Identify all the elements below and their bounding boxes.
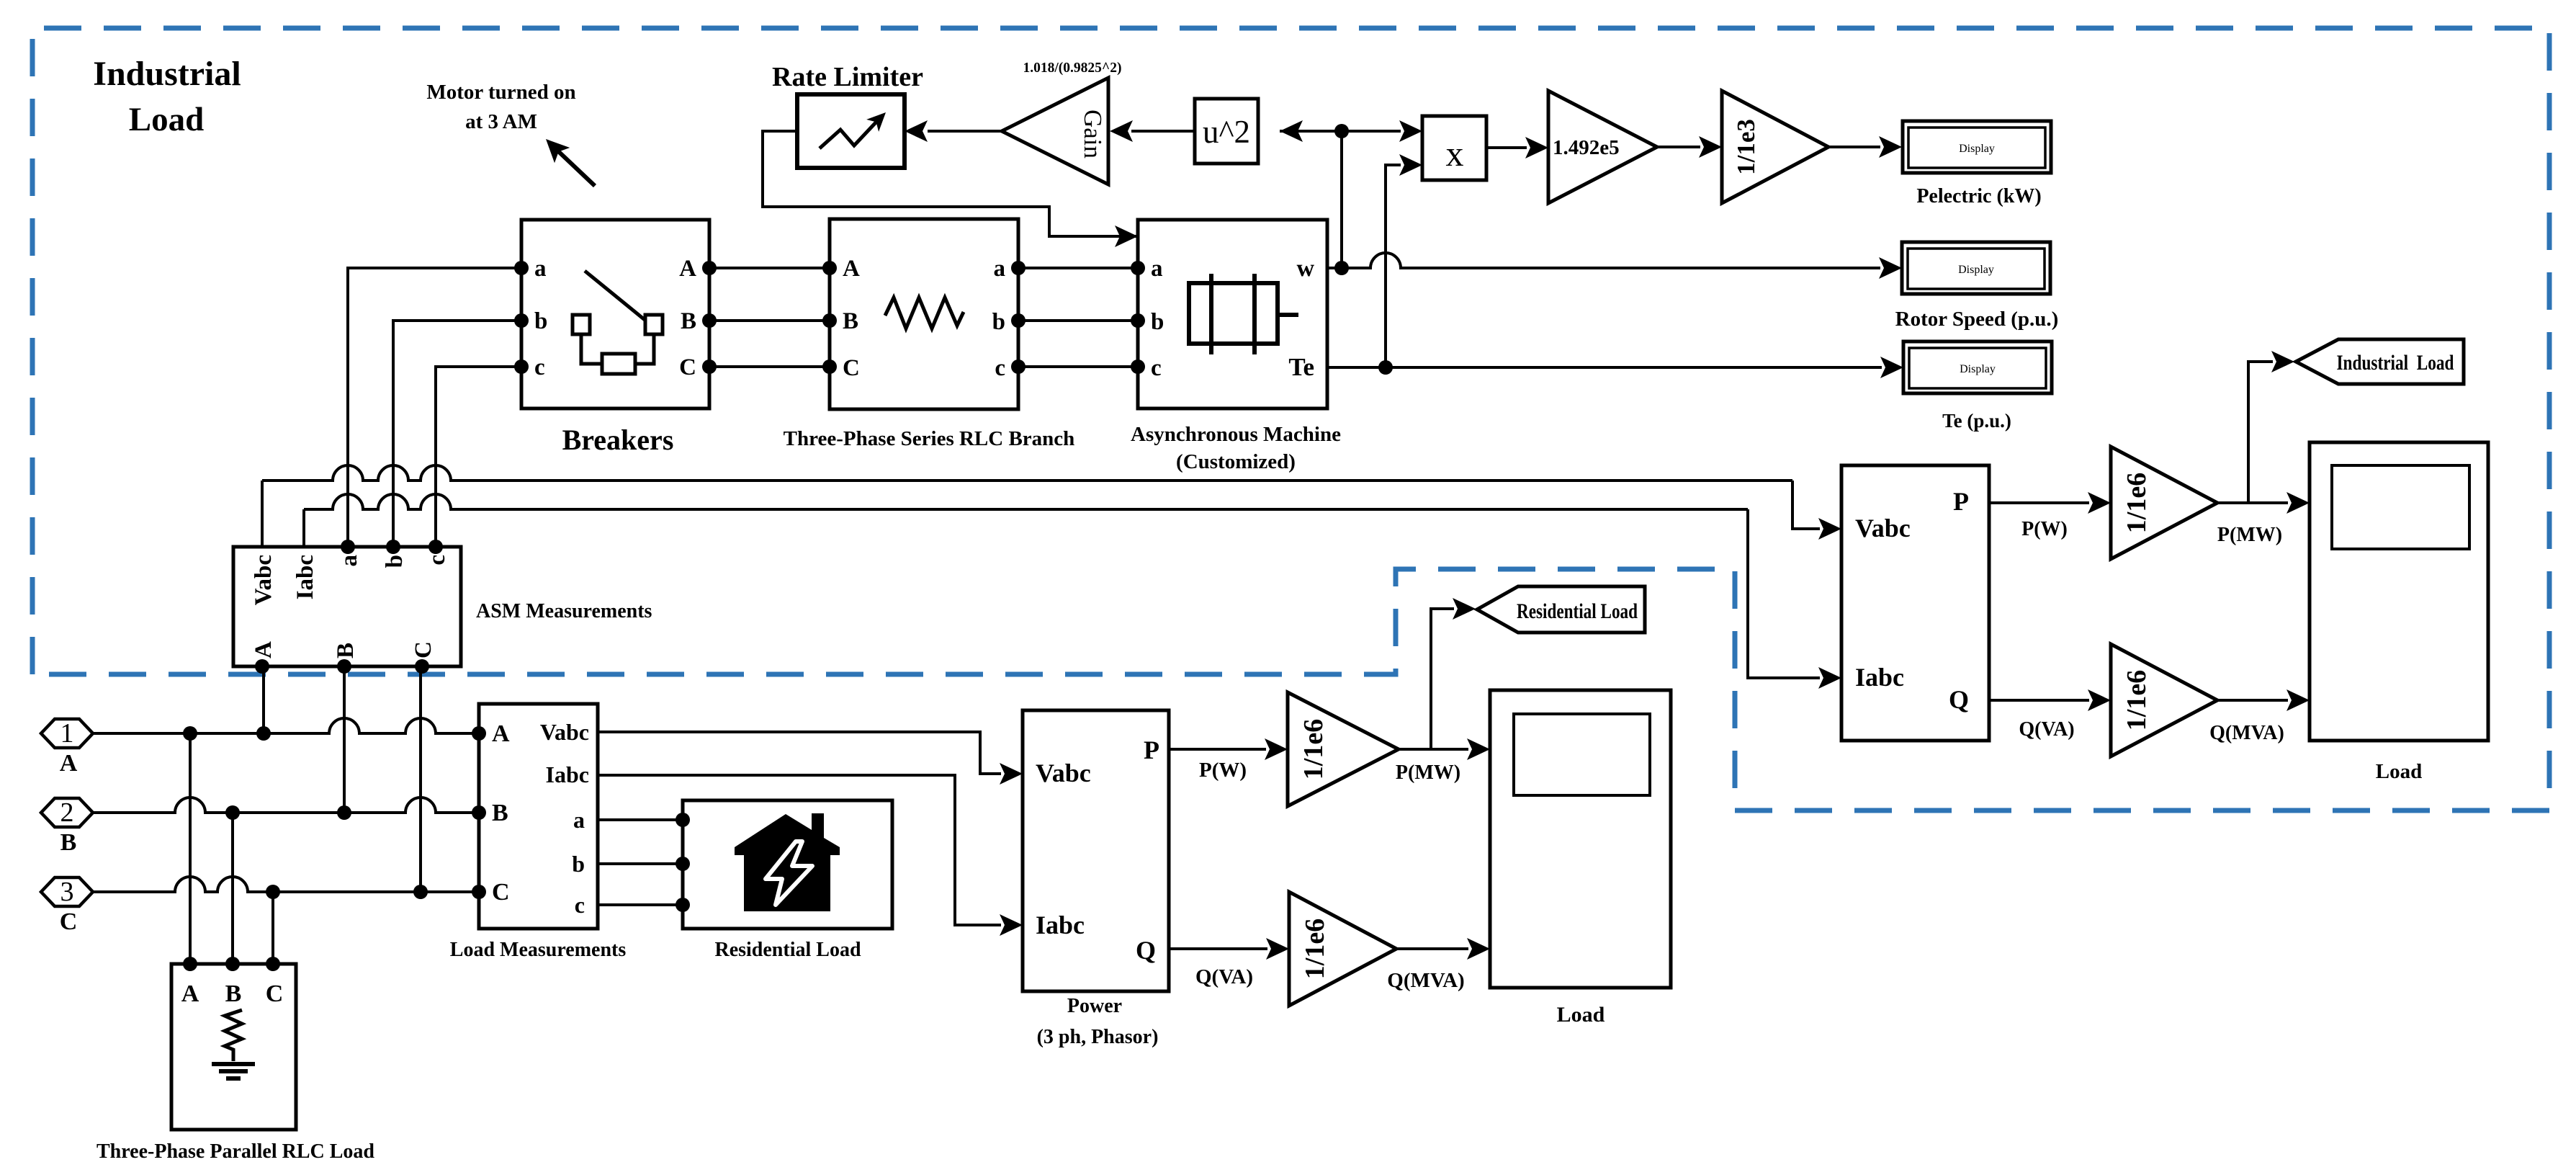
wire: ASM A down to row A xyxy=(262,666,265,733)
svg-text:Three-Phase Series RLC Branch: Three-Phase Series RLC Branch xyxy=(784,427,1075,450)
breakers port dots xyxy=(514,261,529,275)
wire RLC c to machine c xyxy=(1018,365,1138,368)
svg-text:1.492e5: 1.492e5 xyxy=(1553,136,1620,159)
svg-text:B: B xyxy=(333,643,359,658)
svg-text:a: a xyxy=(994,256,1006,282)
svg-text:P(MW): P(MW) xyxy=(1396,761,1460,784)
junction dot row B to RLC load B xyxy=(225,805,240,820)
wire ASM Vabc output long line to P-Q measurement Vabc xyxy=(261,481,264,547)
svg-text:Te: Te xyxy=(1288,353,1314,381)
svg-text:Vabc: Vabc xyxy=(251,555,277,605)
wire ASM a up to breakers a xyxy=(348,268,521,547)
svg-text:b: b xyxy=(382,555,408,568)
block Power (3 ph, Phasor) xyxy=(1023,710,1169,991)
svg-text:b: b xyxy=(572,851,585,877)
rlc load resistor + ground icon xyxy=(225,1010,242,1061)
wire: ASM C down to row C xyxy=(419,666,422,892)
junction dot on w line xyxy=(1334,261,1349,275)
junction dot row C to RLC load C xyxy=(266,885,280,899)
input port 2 (B) xyxy=(41,798,93,827)
wire: X output to gain 1.492e5 xyxy=(1486,146,1527,149)
gain 1/1e6 (P residential) xyxy=(1288,692,1399,806)
svg-text:Display: Display xyxy=(1960,363,1996,375)
svg-text:B: B xyxy=(843,308,858,334)
svg-text:at 3 AM: at 3 AM xyxy=(465,110,537,133)
svg-text:P: P xyxy=(1953,487,1969,516)
junction dot row B from ASM B xyxy=(337,805,351,820)
wire gain to industrial Load scope P input xyxy=(2217,501,2288,504)
wire row C: port 3 to Load Measurements C (hops over RLC A,B drops) xyxy=(93,877,479,892)
wire Power P to gain 1/1e6 xyxy=(1169,748,1266,751)
svg-text:Q(VA): Q(VA) xyxy=(1195,965,1253,988)
wire gain to industrial Load scope Q input xyxy=(2217,699,2288,702)
block Asynchronous Machine (Customized) xyxy=(1138,220,1327,408)
load measurements port dots xyxy=(472,726,486,741)
svg-text:Motor turned on: Motor turned on xyxy=(426,81,575,104)
svg-text:Te (p.u.): Te (p.u.) xyxy=(1942,410,2011,432)
svg-text:c: c xyxy=(575,892,585,918)
svg-text:P(W): P(W) xyxy=(2021,518,2068,540)
junction dot row A to RLC load A xyxy=(183,726,197,741)
svg-text:(Customized): (Customized) xyxy=(1176,450,1296,473)
svg-text:C: C xyxy=(60,908,78,935)
svg-text:Breakers: Breakers xyxy=(562,424,674,456)
wire ASM c up to breakers c xyxy=(436,367,521,547)
svg-text:1.018/(0.9825^2): 1.018/(0.9825^2) xyxy=(1023,61,1122,76)
goto tag Residential Load xyxy=(1477,586,1645,633)
wire LM Vabc to Power Vabc xyxy=(598,732,1001,774)
wire: ASM B down to row B xyxy=(343,666,346,813)
svg-text:B: B xyxy=(225,980,242,1007)
svg-text:a: a xyxy=(1151,256,1163,282)
house silhouette xyxy=(735,813,840,911)
svg-text:C: C xyxy=(679,354,696,380)
wire: vertical from Te line up to X lower input xyxy=(1386,165,1401,367)
svg-text:Q(MVA): Q(MVA) xyxy=(2209,722,2284,744)
svg-text:P: P xyxy=(1144,736,1159,764)
rlc load port dots xyxy=(183,957,197,971)
block Three-Phase Series RLC Branch xyxy=(830,219,1018,409)
svg-text:Industrial: Industrial xyxy=(93,55,241,93)
resistor zigzag icon xyxy=(885,298,964,329)
svg-text:Asynchronous Machine: Asynchronous Machine xyxy=(1131,423,1341,446)
wire RLC a to machine a xyxy=(1018,267,1138,269)
input port 1 (A) xyxy=(41,719,93,748)
svg-text:Load: Load xyxy=(2376,760,2422,783)
display Te (p.u.) xyxy=(1903,341,2052,393)
wire: machine w output to Rotor Speed display (hops over X-input vertical) xyxy=(1327,253,1880,268)
lightning bolt xyxy=(766,841,812,905)
svg-text:b: b xyxy=(534,308,547,334)
svg-text:a: a xyxy=(336,555,362,567)
svg-text:A: A xyxy=(251,641,277,658)
wire gain to residential Load scope P input xyxy=(1399,748,1468,751)
svg-text:a: a xyxy=(573,807,585,833)
wire branch up to Industrial Load goto tag xyxy=(2248,362,2273,503)
svg-text:C: C xyxy=(492,879,510,906)
svg-text:1/1e6: 1/1e6 xyxy=(2122,670,2152,731)
wire: vertical from branch dot down to w output line xyxy=(1340,131,1343,268)
svg-text:Gain: Gain xyxy=(1079,110,1107,158)
svg-text:Display: Display xyxy=(1958,264,1994,276)
svg-text:b: b xyxy=(992,309,1005,335)
svg-text:Iabc: Iabc xyxy=(546,761,589,787)
svg-text:1/1e6: 1/1e6 xyxy=(1298,719,1329,779)
svg-text:u^2: u^2 xyxy=(1203,114,1250,150)
block Three-Phase Parallel RLC Load xyxy=(171,964,296,1130)
svg-text:Rotor Speed (p.u.): Rotor Speed (p.u.) xyxy=(1895,308,2059,331)
svg-text:A: A xyxy=(492,720,510,747)
wire breakers C to RLC C xyxy=(709,365,830,368)
svg-text:Power: Power xyxy=(1067,995,1122,1017)
svg-text:3: 3 xyxy=(60,877,74,907)
svg-text:C: C xyxy=(266,980,284,1007)
gain 1/1e6 (P industrial) xyxy=(2111,447,2217,559)
wire: 1/1e3 to Pelectric display xyxy=(1828,146,1880,148)
wire branch up to Residential Load goto tag xyxy=(1431,609,1454,749)
svg-text:Q(MVA): Q(MVA) xyxy=(1387,969,1464,992)
annotation arrow xyxy=(555,148,595,186)
rlc branch port dots xyxy=(822,261,837,275)
junction dot row C from ASM C xyxy=(413,885,428,899)
wire row A: port 1 to Load Measurements A (hops over ASM B,C drops) xyxy=(93,718,479,733)
input port 3 (C) xyxy=(41,877,93,906)
junction dot row A to ASM A xyxy=(256,726,271,741)
junction dot on Te line xyxy=(1378,360,1393,375)
wire ASM b up to breakers b xyxy=(393,321,521,547)
machine icon xyxy=(1189,283,1278,344)
wire: row B down to RLC load B xyxy=(231,813,234,964)
block ASM Measurements xyxy=(233,547,461,666)
svg-text:C: C xyxy=(410,641,436,658)
svg-text:A: A xyxy=(181,980,199,1007)
wire measurement P to gain 1/1e6 (industrial) xyxy=(1989,501,2089,504)
subsystem boundary: Industrial Load (blue dashed) xyxy=(32,28,2549,810)
svg-text:P(W): P(W) xyxy=(1199,759,1247,782)
gain 1.492e5 xyxy=(1548,91,1657,203)
svg-text:Display: Display xyxy=(1959,143,1995,155)
gain 1/1e6 (Q residential) xyxy=(1289,892,1396,1006)
wire: w signal branch line to u^2 and product X xyxy=(1280,130,1401,133)
display Rotor Speed (p.u.) xyxy=(1902,242,2050,294)
svg-text:Q(VA): Q(VA) xyxy=(2019,718,2074,741)
breaker icon switch xyxy=(585,271,647,322)
wire: machine Te output to Te display xyxy=(1327,366,1882,369)
svg-text:C: C xyxy=(843,355,860,381)
asm measurements port dots xyxy=(341,540,355,554)
svg-text:x: x xyxy=(1446,133,1464,174)
wire breakers B to RLC B xyxy=(709,319,830,322)
svg-text:Vabc: Vabc xyxy=(540,719,589,745)
svg-text:Iabc: Iabc xyxy=(292,555,318,599)
wire LM Iabc to Power Iabc xyxy=(598,775,1001,925)
wire LM b to house xyxy=(598,862,683,865)
svg-text:Load: Load xyxy=(1557,1003,1605,1027)
svg-text:A: A xyxy=(60,750,78,777)
wire measurement Q to gain 1/1e6 (industrial) xyxy=(1989,699,2089,702)
wire: u^2 output to gain input xyxy=(1131,130,1195,133)
svg-text:2: 2 xyxy=(60,798,74,828)
svg-text:A: A xyxy=(679,256,696,282)
svg-text:Q: Q xyxy=(1949,685,1969,714)
gain 1/1e6 (Q industrial) xyxy=(2111,644,2217,756)
block u^2 (math function square) xyxy=(1195,99,1258,164)
wire LM a to house xyxy=(598,818,683,821)
svg-text:1/1e6: 1/1e6 xyxy=(1300,919,1330,979)
machine port dots xyxy=(1131,261,1145,275)
svg-text:c: c xyxy=(424,555,450,566)
svg-text:Q: Q xyxy=(1136,936,1156,965)
svg-text:Iabc: Iabc xyxy=(1855,663,1904,692)
svg-text:c: c xyxy=(534,354,545,380)
svg-text:Rate Limiter: Rate Limiter xyxy=(772,62,923,92)
wire RLC b to machine b xyxy=(1018,319,1138,322)
scope Load (residential) xyxy=(1490,690,1671,988)
svg-text:w: w xyxy=(1296,255,1314,282)
wire: row C down to RLC load C xyxy=(271,892,274,964)
svg-text:1/1e6: 1/1e6 xyxy=(2122,473,2152,533)
svg-text:P(MW): P(MW) xyxy=(2217,524,2282,546)
svg-text:c: c xyxy=(995,355,1005,381)
svg-text:(3 ph, Phasor): (3 ph, Phasor) xyxy=(1037,1026,1159,1048)
wire: gain output to rate limiter input xyxy=(928,130,1002,133)
wire row B: port 2 to Load Measurements B (hops over RLC A drop and ASM C drop) xyxy=(93,798,479,813)
svg-text:ASM Measurements: ASM Measurements xyxy=(476,600,652,622)
svg-text:Load: Load xyxy=(129,101,205,138)
display Pelectric (kW) xyxy=(1903,121,2051,173)
wire Power Q to gain 1/1e6 xyxy=(1169,947,1267,950)
svg-text:b: b xyxy=(1151,309,1164,335)
wire: rate limiter output to machine Pm input xyxy=(763,131,1136,236)
wire: 1.492e5 to 1/1e3 xyxy=(1657,146,1700,148)
wire breakers A to RLC A xyxy=(709,267,830,269)
svg-text:Iabc: Iabc xyxy=(1036,911,1085,939)
wire ASM Iabc output long line to P-Q measurement Iabc xyxy=(302,509,305,547)
gain 1/1e3 xyxy=(1722,91,1828,203)
svg-text:Load Measurements: Load Measurements xyxy=(450,939,627,961)
svg-text:a: a xyxy=(534,256,547,282)
wire LM c to house xyxy=(598,903,683,906)
svg-text:c: c xyxy=(1151,355,1162,381)
junction dot on w branch line xyxy=(1334,124,1349,138)
svg-text:1: 1 xyxy=(60,718,74,749)
svg-text:Vabc: Vabc xyxy=(1855,514,1911,542)
wire gain to residential Load scope Q input xyxy=(1396,947,1468,950)
product block X xyxy=(1422,116,1486,180)
svg-text:Industrial Load: Industrial Load xyxy=(2337,351,2454,375)
block Residential Load (house icon) xyxy=(683,800,892,929)
house port dots xyxy=(676,813,690,827)
svg-text:1/1e3: 1/1e3 xyxy=(1732,119,1760,175)
svg-text:B: B xyxy=(60,829,77,856)
svg-text:A: A xyxy=(843,256,860,282)
svg-text:Three-Phase Parallel RLC Load: Three-Phase Parallel RLC Load xyxy=(97,1140,374,1163)
svg-text:Pelectric (kW): Pelectric (kW) xyxy=(1916,185,2041,207)
svg-text:B: B xyxy=(681,308,696,334)
block Load Measurements xyxy=(479,704,598,929)
svg-text:Residential Load: Residential Load xyxy=(714,939,861,961)
svg-text:B: B xyxy=(492,800,508,826)
wire: row A down to RLC load A xyxy=(189,733,192,964)
goto tag Industrial Load xyxy=(2296,339,2464,384)
svg-text:Residential Load: Residential Load xyxy=(1517,599,1638,623)
scope Load (industrial) xyxy=(2310,442,2488,741)
block Breakers xyxy=(521,220,709,408)
svg-text:Vabc: Vabc xyxy=(1036,759,1091,787)
block power measurement Vabc Iabc P Q (industrial) xyxy=(1841,465,1989,741)
